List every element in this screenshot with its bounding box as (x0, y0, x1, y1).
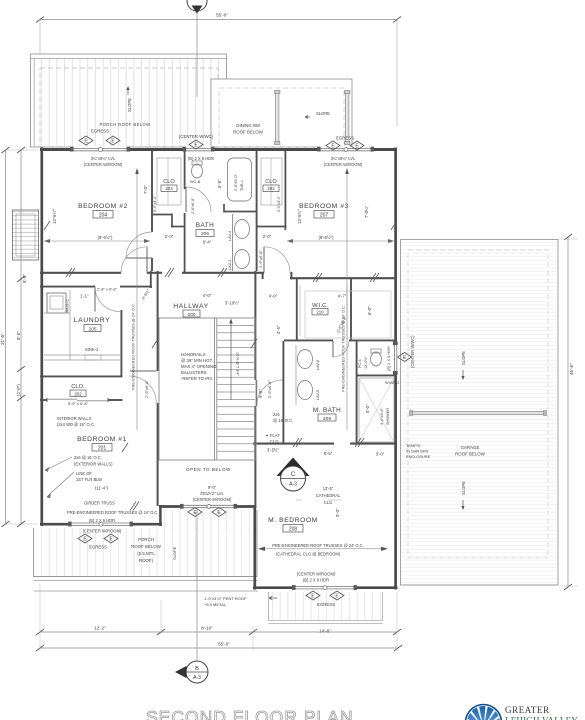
svg-text:(CENTER W/ROOM): (CENTER W/ROOM) (83, 529, 122, 534)
room label: m.bedroom (268, 517, 318, 533)
porch roof below (bottom) hatched area (34, 510, 258, 581)
dim: bedroom2 interior (44, 209, 150, 243)
exterior wall: m.bedroom right (394, 442, 397, 590)
svg-text:13'-5": 13'-5" (323, 486, 334, 491)
svg-text:SECOND FLOOR PLAN: SECOND FLOOR PLAN (146, 707, 354, 720)
svg-text:DINING RM: DINING RM (236, 123, 260, 128)
wall: laundry east (120, 310, 122, 377)
wall: clo201 south (40, 398, 123, 402)
svg-text:(EXTERIOR WALLS): (EXTERIOR WALLS) (74, 462, 113, 467)
svg-text:ROOF): ROOF) (139, 558, 154, 563)
section marker: top center (A) (187, 0, 207, 14)
svg-text:TUB-1: TUB-1 (240, 180, 244, 191)
note: interior walls (57, 416, 95, 427)
svg-text:EGRESS: EGRESS (317, 602, 335, 607)
svg-text:2'-6"x6'-8": 2'-6"x6'-8" (144, 379, 149, 398)
fixture: lav-5 (298, 381, 321, 401)
svg-text:PC-4: PC-4 (358, 359, 362, 368)
wall: laundry / clo divider (40, 375, 123, 377)
open to below label (186, 467, 231, 472)
svg-text:A-3: A-3 (193, 675, 201, 681)
dim line: left outer 31'-6" (0, 147, 38, 527)
room label: wic (312, 303, 328, 315)
svg-text:CLG: CLG (324, 500, 332, 505)
svg-text:CLO.: CLO. (71, 384, 85, 390)
svg-text:SLOPE: SLOPE (127, 98, 132, 112)
svg-text:2'-6"x6'-8": 2'-6"x6'-8" (267, 379, 272, 398)
note: 9'-0 lvl center bottom (188, 485, 232, 517)
svg-text:(CENTER W/WC): (CENTER W/WC) (410, 335, 415, 368)
egress marker: bedroom3 top (326, 136, 364, 151)
wall: wic west (296, 279, 298, 340)
svg-text:2'-6"x6'-8": 2'-6"x6'-8" (258, 249, 263, 268)
exterior wall: bedroom1 bottom (40, 523, 162, 526)
svg-text:GARAGE: GARAGE (461, 445, 480, 450)
svg-text:3'-10½": 3'-10½" (225, 301, 240, 306)
svg-text:14'-6": 14'-6" (319, 629, 331, 634)
note: lvl header bedroom3 (324, 156, 363, 167)
svg-text:B: B (195, 666, 199, 672)
svg-text:(CATHEDRAL CLG @ BEDROOM): (CATHEDRAL CLG @ BEDROOM) (276, 552, 341, 557)
svg-text:PORCH: PORCH (138, 537, 154, 542)
svg-text:(CENTER W/ROOM): (CENTER W/ROOM) (297, 572, 336, 577)
svg-text:(B) 2 X 8 HDR: (B) 2 X 8 HDR (188, 156, 214, 161)
room label: bedroom #2 (78, 203, 128, 219)
svg-text:16 R @ 7 3/4": 16 R @ 7 3/4" (236, 352, 240, 376)
svg-text:CLO: CLO (163, 179, 175, 185)
svg-text:SINK-2: SINK-2 (85, 347, 99, 352)
svg-text:(CENTER W/WC): (CENTER W/WC) (179, 134, 214, 139)
svg-text:INTERIOR WALLS: INTERIOR WALLS (57, 416, 92, 421)
svg-text:55'-6": 55'-6" (216, 13, 228, 18)
slope label (top porch) (126, 86, 132, 112)
fixture: lav-4 (228, 214, 250, 271)
svg-text:(2'-0"): (2'-0") (16, 384, 21, 396)
svg-text:CLO: CLO (265, 179, 277, 185)
svg-text:8'-6": 8'-6" (16, 331, 21, 340)
svg-text:EGRESS: EGRESS (336, 136, 354, 141)
fixture: lav-6 (296, 345, 320, 405)
exterior wall: left (40, 148, 43, 527)
svg-text:210: 210 (316, 310, 324, 315)
section marker: C/A-3 m.bedroom (277, 458, 310, 492)
svg-text:6'-0": 6'-0" (367, 306, 372, 315)
svg-text:8'-5": 8'-5" (22, 274, 27, 283)
svg-text:LEHIGH VALLEY: LEHIGH VALLEY (505, 716, 578, 720)
svg-text:202: 202 (74, 391, 82, 396)
svg-text:6'-0": 6'-0" (365, 404, 370, 413)
window: m.bedroom bottom wall (292, 585, 357, 591)
svg-text:OPEN TO BELOW: OPEN TO BELOW (186, 467, 231, 472)
svg-text:WC-B: WC-B (190, 180, 201, 184)
beam symbol (dining roof right) (345, 91, 350, 145)
center w/wc marker top (179, 134, 214, 149)
wall: hallway west / bedroom1 east (157, 271, 159, 506)
dim line: bottom segments (36, 626, 401, 636)
exterior wall: right (house) (394, 148, 397, 446)
note: lvl header bedroom2 (84, 156, 123, 167)
garage roof ridge beam (410, 411, 547, 416)
dining rm roof below label (233, 123, 264, 135)
svg-text:4'-0": 4'-0" (269, 294, 278, 299)
svg-text:BATH: BATH (196, 222, 215, 229)
svg-text:3'-0": 3'-0" (376, 452, 385, 457)
svg-text:EGRESS: EGRESS (89, 545, 107, 550)
svg-text:SLOPE: SLOPE (172, 546, 177, 560)
door arc: bedroom2 (121, 247, 147, 273)
note: exterior walls bedroom1 (67, 455, 159, 515)
laundry counter (44, 290, 120, 360)
slope label (dining roof) (305, 111, 330, 119)
svg-text:5'-0"x4'-0": 5'-0"x4'-0" (277, 195, 281, 212)
wall: wic/m.bath divider (284, 339, 397, 341)
title: second floor plan (partially visible) (146, 707, 354, 720)
ceiling break line around wic (305, 291, 391, 338)
svg-text:BEDROOM #1: BEDROOM #1 (77, 436, 127, 443)
dim: laundry area (80, 249, 272, 398)
svg-text:SLOPE: SLOPE (461, 481, 466, 495)
svg-text:206: 206 (201, 231, 209, 237)
svg-text:7'-0¼": 7'-0¼" (364, 205, 369, 218)
svg-text:ROOF BELOW: ROOF BELOW (131, 544, 162, 549)
wall: clo bottoms (153, 214, 286, 228)
dim: bath misc (143, 179, 281, 245)
dining rm roof below area (211, 79, 352, 147)
svg-text:PORCH ROOF BELOW: PORCH ROOF BELOW (99, 122, 150, 127)
svg-text:HANDRAILS: HANDRAILS (181, 352, 206, 357)
svg-text:13'-0½": 13'-0½" (364, 356, 368, 369)
closet rod clo202 (261, 158, 282, 205)
svg-text:LINE OF: LINE OF (76, 471, 92, 476)
svg-text:@ 16' O.C.: @ 16' O.C. (273, 418, 293, 423)
door arc: wic to m.bath (333, 341, 349, 357)
fixture: lav-3 (228, 250, 250, 271)
svg-text:1'-1": 1'-1" (80, 294, 89, 299)
svg-text:205: 205 (88, 326, 96, 332)
svg-text:(CENTER W/ROOM): (CENTER W/ROOM) (193, 497, 232, 502)
fixture: washer (47, 293, 70, 313)
room label: m.bath (313, 407, 341, 422)
section marker: bottom (B/A-3) (175, 661, 208, 683)
wall: m.bath west (282, 341, 284, 444)
fixture: tub-1 (228, 158, 252, 201)
svg-text:ENCLOSURE: ENCLOSURE (406, 454, 431, 459)
svg-text:BEDROOM #2: BEDROOM #2 (78, 203, 128, 210)
egress marker: bedroom2 top (79, 129, 120, 146)
garage roof below label (455, 445, 486, 457)
svg-text:TEMP'D: TEMP'D (406, 443, 421, 448)
slope label (garage lower) (461, 481, 466, 510)
svg-text:13'-6½": 13'-6½" (297, 209, 302, 224)
svg-text:9'-0": 9'-0" (335, 508, 340, 517)
exterior wall: m.bedroom bottom (253, 586, 398, 589)
center w/wc marker right wall (398, 335, 416, 368)
note: 2x6 16oc near stair (273, 412, 293, 423)
wall: stair/m.bath west (x255) (254, 271, 256, 508)
svg-text:CATHEDRAL: CATHEDRAL (316, 493, 341, 498)
window: right wall m.bath (393, 342, 399, 375)
svg-text:202: 202 (267, 186, 275, 191)
svg-text:@ 36" MIN HGT.: @ 36" MIN HGT. (181, 358, 213, 363)
wall: m.bedroom top (253, 443, 397, 445)
svg-text:BEDROOM #3: BEDROOM #3 (299, 203, 349, 210)
svg-text:6'-4": 6'-4" (203, 240, 212, 245)
wic rods (300, 285, 347, 336)
svg-text:IN SHR DRS: IN SHR DRS (406, 449, 429, 454)
svg-text:13'-6½": 13'-6½" (52, 209, 57, 224)
svg-text:(5.5 MTL: (5.5 MTL (137, 551, 155, 556)
room label: clo 203 (161, 179, 177, 191)
svg-text:(9'-6½"): (9'-6½") (97, 235, 113, 240)
leader lines girder truss (45, 457, 74, 498)
exterior wall: center bottom (159, 505, 256, 508)
svg-text:PRE-ENGINEERED ROOF TRUSSES @: PRE-ENGINEERED ROOF TRUSSES @ 24' O.C. (272, 543, 364, 548)
room label: bedroom #1 (77, 436, 127, 452)
dim: wic area (335, 294, 372, 414)
fixture: wc m.bath (371, 349, 382, 366)
porch roof below (bottom) label (131, 537, 162, 563)
svg-text:2'-0": 2'-0" (263, 234, 272, 239)
svg-text:6'-5": 6'-5" (324, 451, 333, 456)
svg-text:1ST FLR BLW: 1ST FLR BLW (76, 477, 102, 482)
door arc: laundry (95, 287, 120, 312)
note: cathedral clg m.bedroom (296, 486, 342, 505)
svg-text:WASH-1: WASH-1 (66, 299, 70, 313)
note: hdr bath (188, 156, 214, 161)
stairwell outline (159, 318, 256, 460)
room label: bedroom #3 (299, 203, 349, 219)
svg-text:2'-6"x5'-0": 2'-6"x5'-0" (234, 173, 238, 191)
porch roof below label (top) (99, 122, 150, 127)
svg-text:3'-5½": 3'-5½" (267, 448, 280, 453)
egress marker: bedroom1 bottom (78, 534, 118, 550)
svg-text:207: 207 (320, 213, 329, 219)
svg-text:8'-10": 8'-10" (201, 626, 213, 631)
dim line: right 45'-6" (559, 234, 578, 590)
svg-text:3'EVA'2" LVL: 3'EVA'2" LVL (200, 491, 224, 496)
wall: bath / clo202 divider (256, 151, 258, 271)
svg-text:GIRDER TRUSS: GIRDER TRUSS (84, 501, 115, 506)
svg-text:200: 200 (187, 312, 195, 318)
svg-text:2'-8" x 6'-8": 2'-8" x 6'-8" (97, 287, 118, 292)
center w/room note: m.bedroom bottom (297, 572, 336, 583)
stair direction line (229, 319, 239, 401)
svg-text:PRE-ENGINEERED ROOF TRUSSES @: PRE-ENGINEERED ROOF TRUSSES @ 24' O.C. (67, 510, 159, 515)
door arc: m.bath from hall (257, 380, 283, 406)
window: bedroom1 bottom wall (68, 522, 133, 528)
svg-text:5'-0" x 6'-8": 5'-0" x 6'-8" (68, 401, 89, 406)
svg-text:CLG: CLG (270, 439, 278, 444)
note: pc-4 (358, 356, 368, 369)
m.bedroom porch strip (hatched) (268, 592, 383, 624)
svg-text:HALLWAY: HALLWAY (173, 303, 208, 310)
window: bedroom2 top wall (70, 147, 130, 153)
svg-text:FLAT: FLAT (270, 433, 280, 438)
svg-text:W.I.C.: W.I.C. (312, 303, 328, 309)
door arc: clo203 from bedroom2 (126, 232, 152, 258)
note: pre-engineered trusses m.bedroom (258, 543, 388, 557)
svg-text:M. BATH: M. BATH (313, 407, 341, 414)
svg-text:9'-8": 9'-8" (258, 389, 263, 398)
exterior wall: m.bedroom left (253, 505, 256, 590)
door arc: bedroom1 (129, 371, 156, 403)
room label: laundry (74, 317, 111, 332)
svg-text:SHWR-2: SHWR-2 (385, 381, 399, 385)
center line: vertical top (196, 13, 198, 97)
fixture: wc-b (190, 161, 203, 184)
svg-text:GREATER: GREATER (505, 705, 550, 715)
svg-text:1'-0"x3'-0" PENT ROOF: 1'-0"x3'-0" PENT ROOF (204, 596, 247, 601)
logo: greater lehigh valley (partially visible) (466, 705, 579, 720)
wall: hallway north (bedrooms/bath south) (40, 272, 397, 279)
dim: bedroom3 interior (287, 205, 394, 243)
note: flat clg (266, 433, 280, 444)
svg-text:2'-6"x6'-8": 2'-6"x6'-8" (191, 197, 195, 214)
svg-text:C: C (291, 472, 296, 478)
dim line: left inner segments (16, 147, 27, 527)
door arc: bath (west wall) (186, 187, 211, 212)
vertical truss leader right (341, 168, 349, 430)
slope label (garage upper) (461, 351, 466, 380)
svg-text:LAV-5: LAV-5 (316, 390, 320, 400)
svg-text:(CENTER W/ROOM): (CENTER W/ROOM) (84, 162, 123, 167)
svg-text:-REFER TO IRC: -REFER TO IRC (181, 376, 213, 381)
closet rod clo203 (157, 158, 181, 205)
svg-text:2x6: 2x6 (273, 412, 280, 417)
svg-text:(CENTER W/ROOM): (CENTER W/ROOM) (324, 162, 363, 167)
svg-text:(B) 2 X 6 HDR: (B) 2 X 6 HDR (89, 518, 115, 523)
handrail note (181, 352, 217, 381)
pent roof line (34, 590, 259, 592)
exterior wall: jog near stair (159, 505, 162, 526)
svg-text:204: 204 (99, 213, 108, 219)
stair treads (217, 325, 255, 451)
wall cut ticks (44, 221, 397, 511)
room label: bath (196, 222, 215, 237)
svg-text:(B) 2 X 8 HDR: (B) 2 X 8 HDR (386, 346, 391, 371)
svg-text:ROOF BELOW: ROOF BELOW (233, 130, 264, 135)
svg-text:(2x4 WD @ 16" O.C.: (2x4 WD @ 16" O.C. (57, 422, 95, 427)
svg-text:4'-7": 4'-7" (338, 294, 347, 299)
wall: m.bath east compartment (356, 341, 397, 444)
wall: clo203 / bath divider (184, 151, 186, 273)
window: bath top wall (183, 147, 215, 153)
room label: hallway (173, 303, 208, 318)
wall: tub alcove (224, 204, 256, 213)
svg-text:ROOF BELOW: ROOF BELOW (455, 452, 486, 457)
svg-text:31'-6": 31'-6" (0, 333, 5, 345)
beam symbol (dining roof left) (275, 91, 280, 145)
garage roof below hatched area (401, 240, 559, 586)
svg-text:9'-0": 9'-0" (208, 485, 217, 490)
svg-text:4'-0": 4'-0" (203, 293, 212, 298)
window: bedroom3 top wall (317, 147, 374, 153)
svg-text:(11'-4"): (11'-4") (95, 486, 108, 491)
svg-text:+5.5 METAL: +5.5 METAL (204, 602, 227, 607)
svg-text:55'-6": 55'-6" (218, 642, 230, 647)
svg-text:45'-6": 45'-6" (569, 363, 574, 375)
svg-text:209: 209 (323, 416, 331, 422)
room label: clo 202 (263, 179, 279, 191)
svg-text:5'-8": 5'-8" (217, 179, 222, 188)
svg-text:(9'-6½"): (9'-6½") (318, 235, 334, 240)
svg-text:M. BEDROOM: M. BEDROOM (268, 517, 318, 524)
svg-text:7'-0": 7'-0" (143, 185, 148, 194)
exterior wall: top (40, 148, 397, 151)
room label: clo 201a (68, 384, 89, 406)
svg-text:(B) 2 X 8 HDR: (B) 2 X 8 HDR (303, 578, 329, 583)
svg-text:LAUNDRY: LAUNDRY (74, 317, 111, 324)
note: hdr right wall (386, 346, 391, 371)
svg-text:208: 208 (289, 527, 298, 533)
center w/room note: bedroom1 bottom (83, 518, 122, 534)
svg-text:EGRESS: EGRESS (91, 129, 109, 134)
wall: laundry north (40, 271, 152, 288)
pent roof note (204, 596, 277, 607)
svg-text:SLOPE: SLOPE (316, 111, 330, 116)
svg-text:203: 203 (165, 186, 173, 191)
wall: clo202 / bedroom3 divider (284, 151, 286, 230)
egress marker: m.bedroom bottom (306, 591, 344, 607)
svg-text:BALUSTERS: BALUSTERS (181, 370, 207, 375)
svg-text:SLOPE: SLOPE (461, 351, 466, 365)
svg-text:SHOWER: SHOWER (386, 408, 390, 425)
svg-text:2x6 @ 16' O.C.: 2x6 @ 16' O.C. (74, 455, 102, 460)
door arc: bedroom3 (264, 247, 290, 273)
svg-text:3'-0"x6'-0": 3'-0"x6'-0" (380, 407, 384, 425)
center line: vertical bottom (196, 508, 198, 660)
svg-text:MAX 4" OPENING: MAX 4" OPENING (181, 364, 217, 369)
dim line: bottom overall 55'-6" (36, 642, 402, 652)
svg-text:3¼"x9¼" LVL: 3¼"x9¼" LVL (91, 156, 116, 161)
chimney box (left exterior) (13, 210, 39, 260)
vertical truss leader left (131, 168, 139, 430)
svg-text:5'-0"x4'-0": 5'-0"x4'-0" (153, 195, 157, 212)
svg-text:3¼"x9¼" LVL: 3¼"x9¼" LVL (331, 156, 356, 161)
window: center bottom wall (180, 504, 237, 510)
dim extension lines bottom (40, 584, 397, 650)
dim line: top 55'-6" (36, 13, 401, 127)
svg-text:12'-2": 12'-2" (94, 626, 106, 631)
dim: m.bedroom (267, 448, 385, 518)
svg-text:4'-5": 4'-5" (276, 325, 281, 334)
svg-text:2'-0": 2'-0" (165, 234, 174, 239)
fixture: shower (359, 378, 399, 442)
wall: bedroom2 / closet divider (151, 151, 153, 271)
svg-text:LAV-3: LAV-3 (228, 260, 232, 270)
slope label (bottom porch) (172, 546, 177, 560)
svg-text:A-3: A-3 (289, 482, 297, 488)
porch roof below (top) hatched area (31, 54, 227, 147)
svg-text:201: 201 (98, 446, 107, 452)
dim: hallway (203, 293, 281, 398)
note: temp'd shower doors (406, 443, 431, 459)
svg-text:PRE-ENGINEERED ROOF TRUSSES @: PRE-ENGINEERED ROOF TRUSSES @ 24' O.C. (131, 303, 136, 390)
svg-text:LAV-4: LAV-4 (228, 231, 232, 241)
wall: wic east (350, 279, 352, 340)
svg-text:LAV-6: LAV-6 (316, 360, 320, 370)
